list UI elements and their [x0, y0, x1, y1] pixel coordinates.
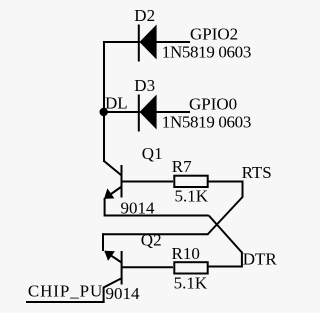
svg-text:5.1K: 5.1K	[175, 187, 209, 206]
wire: D3 to GPIO0	[156, 111, 190, 113]
wire: main vertical from D2 corner down to Q1 collector	[103, 41, 105, 162]
svg-text:Q2: Q2	[141, 231, 162, 250]
svg-text:D3: D3	[134, 76, 155, 95]
svg-text:Q1: Q1	[142, 144, 163, 163]
resistor R7	[174, 176, 207, 187]
node DL junction dot	[100, 108, 108, 116]
wire: D2 to GPIO2	[156, 41, 190, 43]
wire: Q2 base to R10	[122, 266, 173, 268]
svg-text:GPIO2: GPIO2	[190, 25, 238, 44]
svg-text:D2: D2	[134, 6, 155, 25]
svg-text:9014: 9014	[106, 284, 141, 303]
wire: CHIP_PU horizontal rail	[26, 301, 105, 303]
wire: R7 to RTS corner	[209, 182, 243, 198]
wire: RTS diagonal down to Q2 emitter rail	[208, 197, 243, 235]
svg-text:1N5819 0603: 1N5819 0603	[162, 113, 251, 132]
svg-text:GPIO0: GPIO0	[189, 95, 237, 114]
svg-text:1N5819 0603: 1N5819 0603	[162, 43, 251, 62]
wire: Q1 emitter down and right rail	[105, 198, 209, 216]
transistor Q1	[104, 161, 122, 199]
wire: Q2 emitter vertical drop	[102, 233, 104, 251]
transistor Q2	[104, 251, 122, 288]
diode D2	[139, 25, 157, 62]
wire: DTR diagonal from Q1 emitter rail	[209, 216, 242, 253]
wire: D2 anode-side horizontal from corner to diode	[103, 41, 140, 43]
wire: DL to D3	[103, 111, 140, 113]
diode D3	[139, 95, 157, 132]
svg-text:CHIP_PU: CHIP_PU	[28, 282, 103, 301]
wire: DTR corner down and left to R10	[209, 252, 242, 267]
wire: Q2 collector down to CHIP_PU rail	[103, 287, 105, 302]
svg-text:DTR: DTR	[243, 250, 278, 269]
svg-text:R10: R10	[172, 244, 200, 263]
svg-text:DL: DL	[105, 94, 128, 113]
resistor R10	[174, 262, 207, 273]
svg-text:R7: R7	[172, 157, 192, 176]
wire: Q2 emitter rail horizontal	[102, 233, 209, 235]
wire: Q1 base to R7	[122, 181, 174, 183]
svg-text:RTS: RTS	[242, 163, 272, 182]
svg-text:5.1K: 5.1K	[174, 274, 208, 293]
